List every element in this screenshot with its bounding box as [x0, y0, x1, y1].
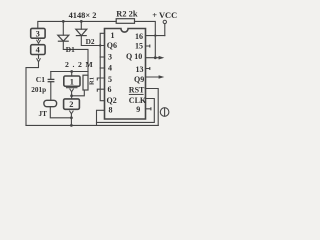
svg-text:2 . 2 M: 2 . 2 M [65, 60, 94, 69]
svg-text:2: 2 [69, 100, 73, 109]
wire VCC riser [164, 24, 166, 36]
junction pin16 row [154, 34, 156, 36]
junction box1 top [70, 70, 73, 73]
IC U1 body with notch [105, 29, 146, 120]
svg-text:Q9: Q9 [134, 75, 144, 84]
wire RST wrap-around [146, 89, 159, 126]
wire left rail from box4 [26, 62, 39, 126]
wire pin 6 stub [97, 89, 104, 91]
wire pin 16 stub [146, 35, 165, 37]
svg-text:CLK: CLK [129, 96, 147, 105]
wire pin 8 to bottom rail [97, 110, 105, 125]
svg-text:Q 10: Q 10 [126, 52, 142, 61]
wire pin 3 stub [100, 56, 104, 58]
svg-text:C1: C1 [36, 75, 45, 84]
wire 2.2M node horizontal [51, 71, 88, 73]
svg-text:R1: R1 [89, 77, 96, 85]
VCC terminal circle [163, 20, 166, 23]
arrowhead Q10 [159, 56, 165, 60]
arrowhead Q9 [159, 75, 165, 79]
wire top bus from box3 to R2 [38, 21, 116, 28]
wire D1 cathode to R1 node [63, 41, 88, 71]
arrow below box2 [69, 111, 73, 114]
svg-text:15: 15 [135, 42, 143, 51]
wire crystal bottom to node [50, 107, 71, 118]
svg-text:Q6: Q6 [107, 41, 117, 50]
wire C1 to crystal [50, 82, 52, 100]
svg-text:R2 2k: R2 2k [116, 10, 138, 19]
wire box1 top lead [71, 72, 73, 77]
wire left bus pin1 to Q2 [100, 33, 104, 100]
svg-text:8: 8 [109, 106, 113, 115]
wire R1 top lead [87, 72, 89, 76]
svg-text:201p: 201p [31, 86, 46, 94]
arrow between box3 and box4 [37, 38, 41, 43]
wire R2 right end down to pin 16 row [135, 21, 156, 35]
svg-text:4: 4 [108, 64, 112, 73]
wire Q9 output [146, 76, 162, 78]
wire pin 5 stub [97, 78, 104, 80]
wire R1 bottom branch [72, 90, 85, 96]
svg-text:D1: D1 [66, 45, 75, 54]
wire bottom rail [26, 124, 158, 126]
wire D2 anode riser [80, 21, 82, 29]
node circled 1 marker [160, 108, 169, 117]
junction crystal node [70, 116, 73, 119]
junction D2 top [80, 20, 83, 23]
wire pin 9 stub [146, 108, 151, 110]
diode D2 [76, 29, 87, 35]
svg-text:5: 5 [108, 75, 112, 84]
block box 3 [31, 28, 45, 38]
box1 bottom plate [66, 87, 78, 89]
svg-text:Q2: Q2 [107, 96, 117, 105]
wire bus pin16 to Q10 row [154, 36, 156, 58]
svg-text:1: 1 [70, 77, 74, 86]
svg-text:RST: RST [129, 85, 145, 94]
wire D1 anode riser [62, 21, 64, 35]
crystal JT [44, 100, 57, 106]
block box 4 [31, 45, 45, 55]
wire box1 to box2 [71, 92, 73, 99]
overline of CLK [129, 93, 144, 95]
wire CLK wrap-around [97, 99, 155, 123]
wire D2 cathode to pin Q6 [81, 36, 104, 46]
svg-text:4148× 2: 4148× 2 [69, 11, 97, 20]
junction Q6 bus crossing [99, 44, 101, 46]
wire C1 top lead [50, 72, 52, 80]
arrow below box1 [70, 89, 74, 92]
wire pin 15 stub [146, 45, 150, 47]
capacitor C1 [48, 79, 55, 81]
svg-text:9: 9 [136, 105, 140, 114]
svg-text:3: 3 [108, 52, 112, 61]
wire Q10 output [146, 57, 162, 59]
wire pin 4 stub [100, 67, 104, 69]
junction box1 bottom node [70, 94, 73, 97]
svg-text:3: 3 [36, 29, 40, 38]
arrow below box4 [37, 58, 41, 62]
resistor R2 [116, 19, 134, 24]
junction D1 top [62, 20, 65, 23]
svg-text:+ VCC: + VCC [152, 11, 177, 20]
svg-text:6: 6 [108, 85, 112, 94]
wire box4 bottom lead [38, 55, 40, 59]
diode D1 [58, 35, 69, 41]
wire box2 bottom to rail [70, 113, 72, 125]
svg-text:13: 13 [136, 65, 144, 74]
svg-text:JT: JT [39, 110, 48, 118]
svg-text:1: 1 [111, 31, 115, 40]
resistor R1 [83, 75, 88, 90]
block box 1 [64, 76, 80, 86]
svg-text:D2: D2 [86, 37, 95, 46]
wire pin 13 stub [146, 68, 150, 70]
junction bottom rail [70, 124, 73, 127]
svg-text:16: 16 [135, 32, 143, 41]
block box 2 [64, 99, 80, 109]
junction Q10 row [154, 56, 157, 59]
